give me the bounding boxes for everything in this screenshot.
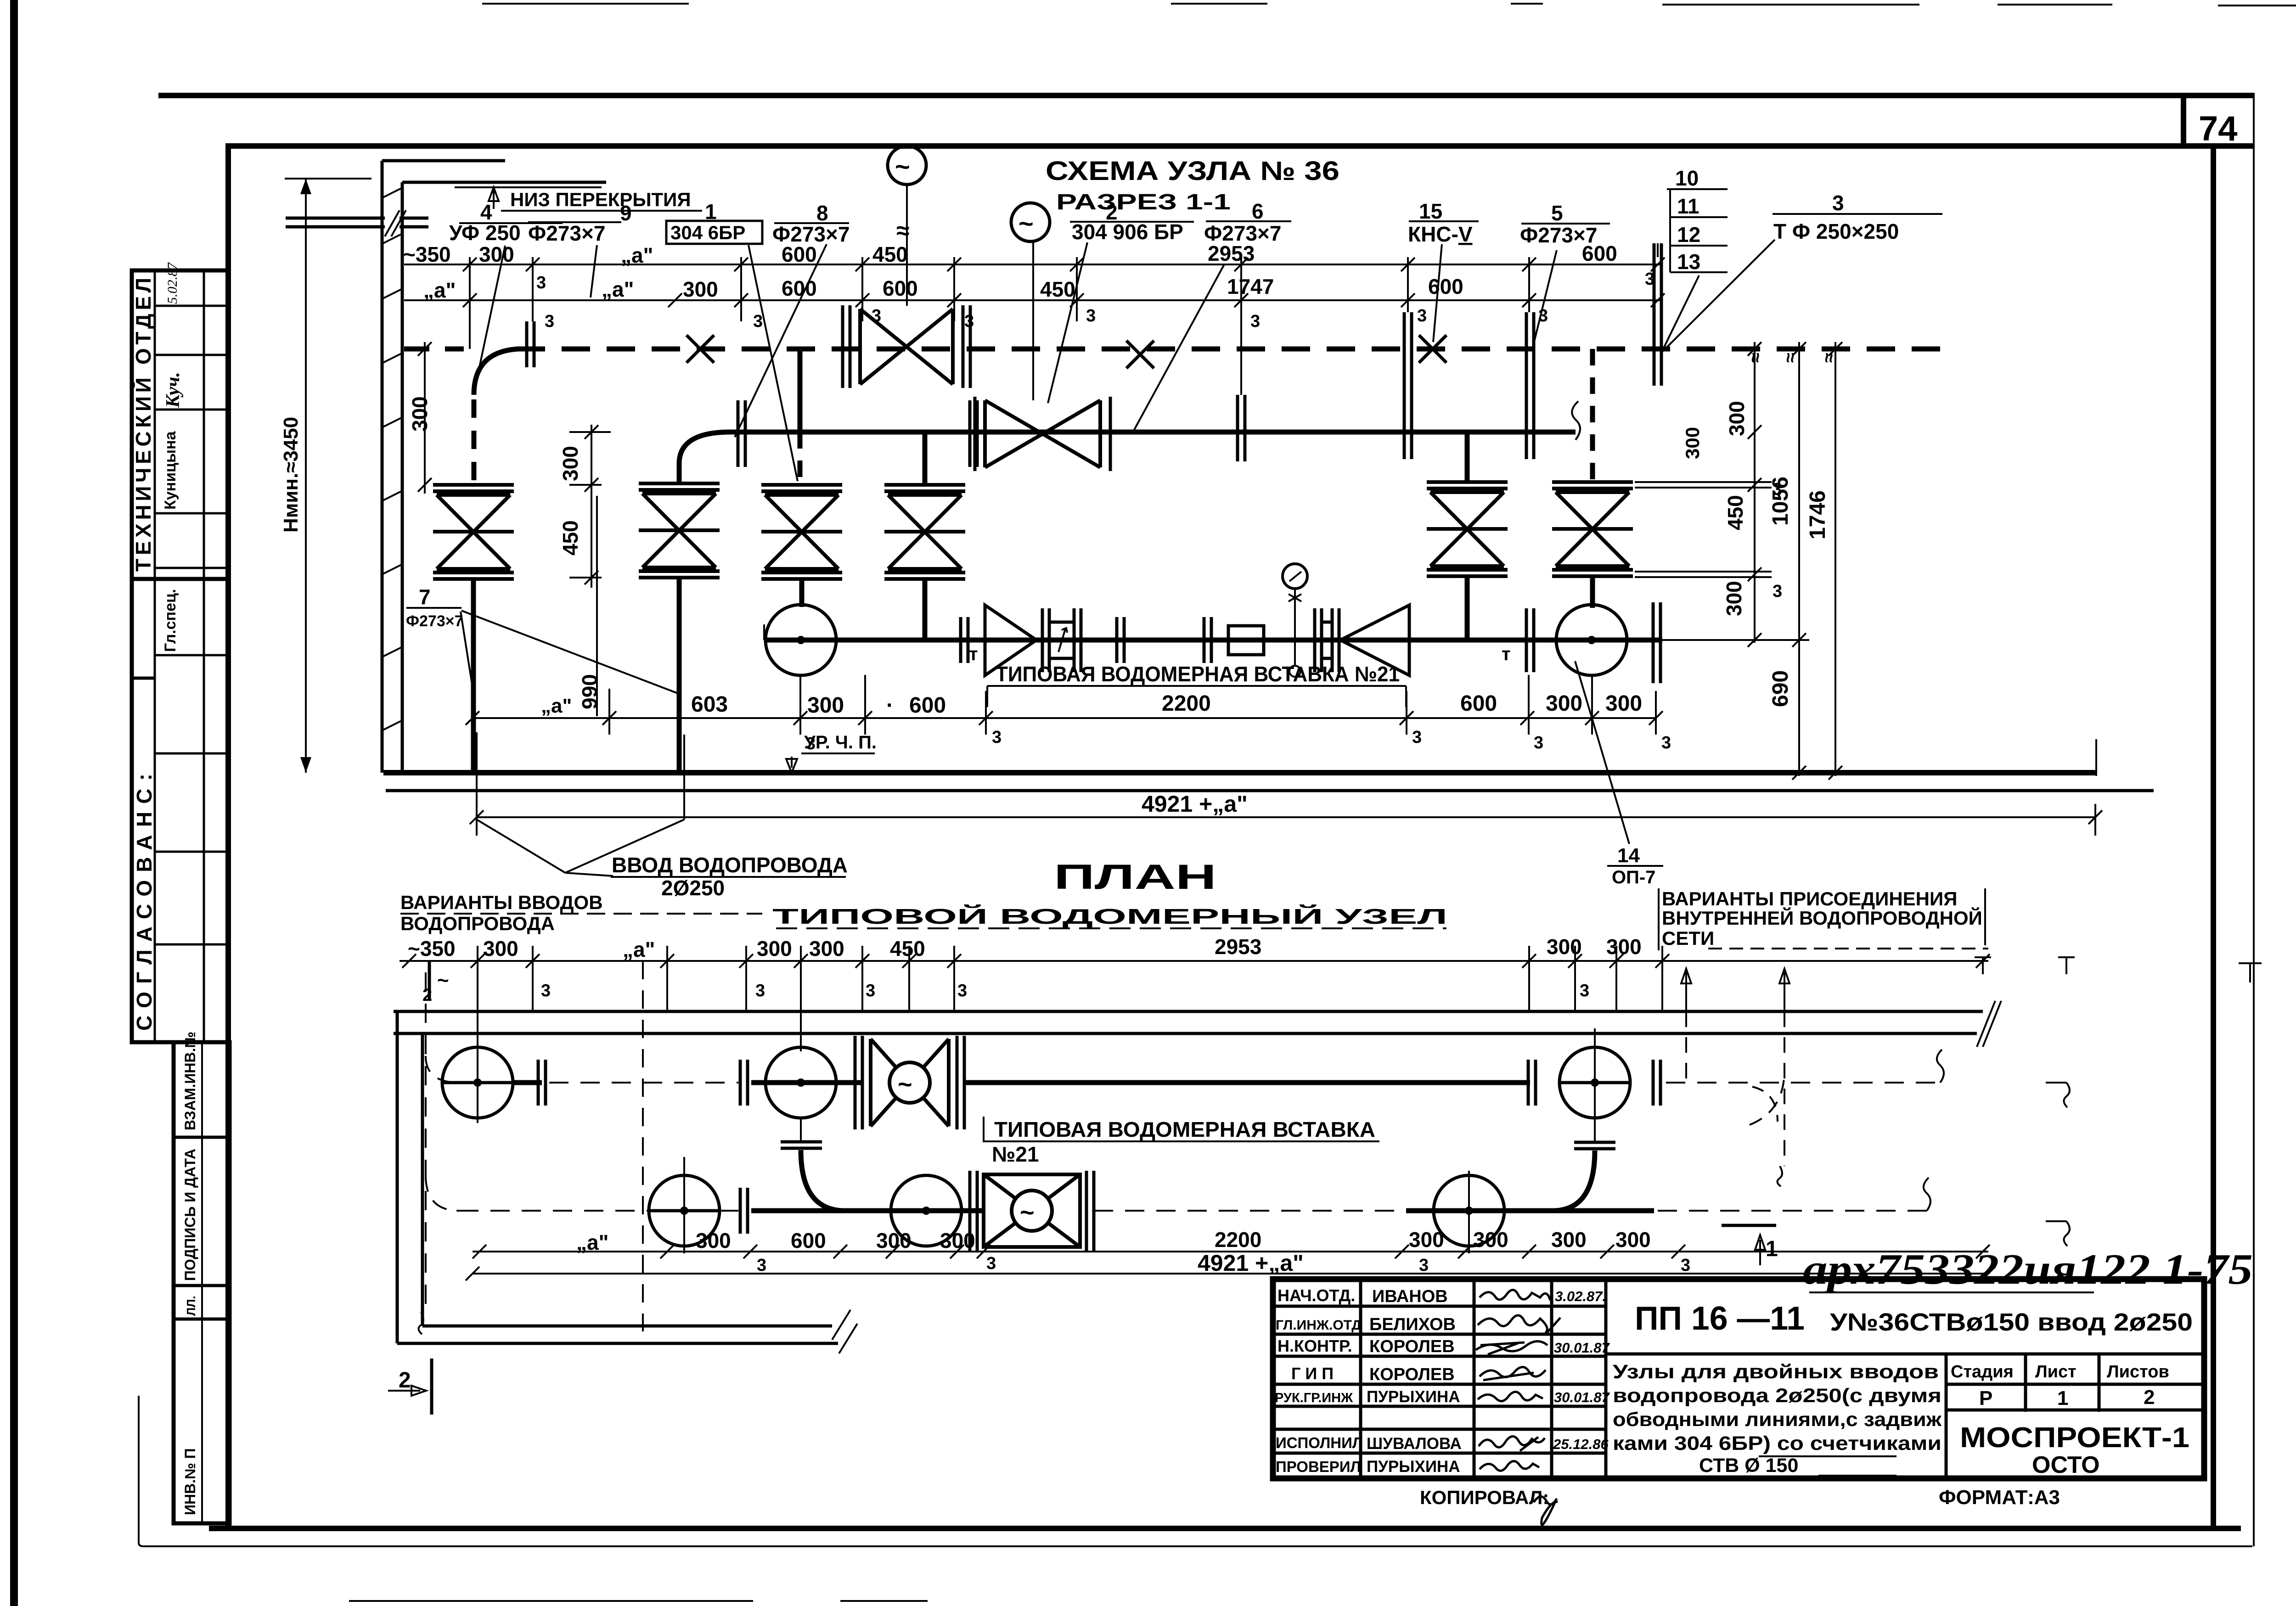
dim texts row A	[403, 241, 1617, 267]
svg-text:Листов: Листов	[2107, 1362, 2169, 1381]
entry riser dashed	[425, 972, 427, 1312]
svg-text:~350: ~350	[403, 242, 451, 266]
valve VH4 box type	[970, 1171, 1094, 1251]
TOP_DIMS	[403, 241, 1665, 395]
svg-text:3: 3	[1580, 981, 1589, 1000]
wall left (hatched)	[382, 161, 402, 773]
svg-text:3: 3	[986, 1254, 996, 1273]
svg-text:300: 300	[558, 446, 582, 481]
pipe segment through C2	[751, 1080, 862, 1085]
vvod vodoprovoda funnel	[477, 732, 684, 820]
svg-text:≈: ≈	[1745, 353, 1766, 363]
svg-text:300: 300	[696, 1229, 731, 1252]
svg-text:300: 300	[807, 693, 844, 718]
svg-text:3: 3	[753, 312, 763, 331]
V3 to meter M1	[799, 578, 805, 607]
svg-text:304 906 БР: 304 906 БР	[1072, 220, 1183, 244]
svg-text:5: 5	[1551, 201, 1563, 225]
plan dim line 4921	[473, 1273, 1988, 1275]
svg-text:~: ~	[1020, 1199, 1035, 1226]
V2 bottom drop	[677, 578, 682, 773]
lower attribute column	[174, 1042, 230, 1523]
flange on P2 x2703	[1238, 395, 1245, 461]
svg-text:3: 3	[541, 981, 551, 1000]
svg-text:3: 3	[1534, 733, 1543, 752]
svg-text:3: 3	[1773, 582, 1782, 601]
svg-text:2953: 2953	[1208, 241, 1255, 265]
svg-text:~: ~	[437, 969, 449, 992]
reducer right	[985, 605, 1036, 675]
svg-text:450: 450	[558, 520, 582, 556]
tall flange x3610	[1654, 243, 1661, 386]
pipe P3 meter line	[764, 638, 1662, 643]
branch riser x1742 solid above P2	[798, 349, 803, 432]
svg-text:3: 3	[872, 306, 881, 326]
svg-text:300: 300	[1547, 935, 1582, 959]
svg-text:СЕТИ: СЕТИ	[1662, 927, 1714, 949]
svg-text:Гл.спец.: Гл.спец.	[162, 589, 179, 652]
svg-text:3: 3	[964, 312, 974, 331]
svg-text:СТВ Ø 150: СТВ Ø 150	[1699, 1454, 1798, 1477]
svg-text:1746: 1746	[1806, 490, 1830, 539]
branch riser x1742 dashed to V3	[798, 432, 803, 485]
svg-text:СХЕМА УЗЛА № 36: СХЕМА УЗЛА № 36	[1046, 156, 1339, 186]
V1 bottom drop	[471, 579, 476, 773]
svg-text:№21: №21	[992, 1142, 1039, 1166]
svg-text:ками 304 6БР) со счетчиками: ками 304 6БР) со счетчиками	[1613, 1432, 1941, 1454]
mosproekt box	[1945, 1412, 1948, 1478]
svg-text:2200: 2200	[1162, 691, 1211, 716]
dim line D1	[404, 264, 1662, 265]
svg-text:УФ 250: УФ 250	[449, 221, 521, 245]
svg-text:ПП 16 —11: ПП 16 —11	[1635, 1300, 1805, 1337]
svg-text:11: 11	[1677, 194, 1699, 218]
svg-text:3: 3	[1419, 1256, 1429, 1275]
dim texts row B	[423, 275, 1463, 302]
title block outer border	[1273, 1279, 2204, 1478]
svg-text:3: 3	[1417, 306, 1427, 326]
horizontal valve VH1 on bypass	[843, 305, 970, 388]
section divider	[132, 577, 228, 581]
svg-text:Г И П: Г И П	[1291, 1364, 1334, 1383]
left frame border	[225, 143, 231, 1528]
flange	[740, 1060, 748, 1106]
stadia list listov headers	[1951, 1362, 2169, 1409]
horizontal valve VH2 on main	[975, 397, 1110, 471]
left table labels	[1275, 1286, 1363, 1475]
svg-text:НИЗ ПЕРЕКРЫТИЯ: НИЗ ПЕРЕКРЫТИЯ	[510, 189, 691, 210]
svg-text:12: 12	[1677, 223, 1700, 247]
svg-text:У№36СТВø150 ввод 2ø250: У№36СТВø150 ввод 2ø250	[1830, 1308, 2193, 1336]
meter circle C3	[1559, 1047, 1630, 1118]
V4 bottom drop	[923, 578, 928, 640]
svg-text:2: 2	[2144, 1386, 2155, 1409]
svg-text:3: 3	[1681, 1256, 1690, 1275]
svg-text:ИСПОЛНИЛ: ИСПОЛНИЛ	[1276, 1434, 1363, 1451]
svg-text:600: 600	[1428, 275, 1463, 298]
meter circle C4	[649, 1175, 720, 1246]
svg-text:ЛЛ.: ЛЛ.	[184, 1296, 198, 1316]
svg-text:300: 300	[683, 277, 718, 301]
dashed middle	[1094, 1210, 1406, 1212]
wall break right	[1977, 1001, 2001, 1047]
svg-text:Куч.: Куч.	[163, 372, 184, 408]
wall tee marks	[1975, 957, 1991, 974]
svg-text:Лист: Лист	[2035, 1362, 2077, 1381]
pipe P1 bypass dashed	[404, 347, 464, 352]
svg-text:ФОРМАТ:А3: ФОРМАТ:А3	[1939, 1486, 2060, 1509]
svg-text:Куницына: Куницына	[162, 431, 179, 510]
plan walls top	[394, 1011, 1983, 1033]
svg-text:300: 300	[1473, 1228, 1508, 1252]
svg-text:5.02.87: 5.02.87	[165, 262, 180, 304]
svg-text:300: 300	[1551, 1228, 1587, 1252]
floor line	[383, 770, 2096, 775]
svg-text:4921 +„а": 4921 +„а"	[1198, 1250, 1304, 1276]
svg-text:ПЛАН: ПЛАН	[1054, 858, 1216, 897]
niz perekrytiya label	[489, 187, 499, 209]
svg-text:обводными линиями,с задвиж: обводными линиями,с задвиж	[1613, 1409, 1942, 1431]
meter M2	[1556, 605, 1627, 675]
svg-text:ВАРИАНТЫ ПРИСОЕДИНЕНИЯ: ВАРИАНТЫ ПРИСОЕДИНЕНИЯ	[1662, 888, 1957, 910]
svg-text:Ф273×7: Ф273×7	[1520, 223, 1597, 247]
segment	[720, 1210, 738, 1212]
BOTTOM_DIMS_SECTION	[383, 662, 2154, 791]
svg-text:15: 15	[1419, 199, 1442, 223]
svg-text:ОСТО: ОСТО	[2032, 1452, 2100, 1478]
svg-text:7: 7	[419, 585, 431, 609]
svg-text:НАЧ.ОТД.: НАЧ.ОТД.	[1277, 1286, 1355, 1305]
svg-text:600: 600	[782, 276, 817, 300]
svg-text:600: 600	[1460, 691, 1497, 716]
slab top tick line	[285, 178, 371, 180]
svg-text:3: 3	[757, 1256, 766, 1275]
svg-text:Т Ф 250×250: Т Ф 250×250	[1773, 219, 1899, 243]
svg-text:Узлы для двойных вводов: Узлы для двойных вводов	[1613, 1361, 1939, 1383]
MIDDLE	[400, 661, 2102, 950]
svg-text:1: 1	[2057, 1387, 2068, 1409]
V5 bottom drop	[1465, 574, 1470, 640]
right horizontal extensions	[1635, 482, 1772, 577]
svg-text:БЕЛИХОВ: БЕЛИХОВ	[1369, 1315, 1456, 1334]
riser dashed to V1	[472, 399, 477, 485]
flange on P1 x1155	[527, 321, 534, 367]
row lines left table	[1273, 1306, 1606, 1453]
PLAN	[400, 935, 1990, 1331]
meter circle C5	[891, 1175, 962, 1246]
svg-text:ИВАНОВ: ИВАНОВ	[1372, 1287, 1448, 1306]
meter M1	[765, 605, 836, 675]
filter rectangle	[1228, 626, 1264, 655]
V6 to meter M2	[1590, 574, 1595, 608]
description text	[1613, 1361, 1942, 1477]
dashed continuation	[1666, 1082, 1940, 1084]
svg-text:КНС-V: КНС-V	[1408, 222, 1473, 246]
small 3 labels top	[536, 270, 1654, 331]
svg-text:ВВОД ВОДОПРОВОДА: ВВОД ВОДОПРОВОДА	[612, 853, 848, 877]
svg-text:3: 3	[1412, 728, 1422, 747]
svg-text:9: 9	[620, 201, 632, 225]
svg-text:„а": „а"	[602, 277, 634, 301]
svg-text:ВАРИАНТЫ ВВОДОВ: ВАРИАНТЫ ВВОДОВ	[400, 892, 603, 913]
X mark 3	[1419, 335, 1446, 363]
svg-text:1747: 1747	[1227, 275, 1274, 298]
svg-text:4921 +„а": 4921 +„а"	[1142, 791, 1248, 817]
V6 riser dashed from P1	[1590, 349, 1595, 482]
svg-text:300: 300	[757, 937, 792, 960]
svg-text:≈: ≈	[1819, 353, 1839, 363]
bottom dim line	[473, 717, 1656, 719]
svg-text:13: 13	[1677, 250, 1700, 274]
svg-text:КОПИРОВАЛ:: КОПИРОВАЛ:	[1420, 1487, 1549, 1508]
flange P3 right end x3610	[1653, 602, 1660, 683]
svg-text:690: 690	[1768, 670, 1793, 707]
svg-text:т: т	[1502, 644, 1511, 664]
svg-text:ВНУТРЕННЕЙ ВОДОПРОВОДНОЙ: ВНУТРЕННЕЙ ВОДОПРОВОДНОЙ	[1662, 907, 1982, 929]
flange on P2 x2120	[970, 400, 977, 467]
svg-text:2953: 2953	[1215, 935, 1261, 959]
svg-text:2200: 2200	[1215, 1228, 1261, 1252]
branch arrows up variants	[1681, 969, 1691, 1011]
svg-text:8: 8	[816, 201, 828, 225]
svg-text:~: ~	[898, 1071, 912, 1098]
ceiling slab corner lines	[382, 161, 606, 182]
V4 riser top	[923, 432, 928, 485]
valve V4	[884, 485, 965, 579]
CALLOUTS	[449, 166, 1942, 481]
svg-text:ПУРЫХИНА: ПУРЫХИНА	[1367, 1458, 1460, 1476]
svg-text:УР. Ч. П.: УР. Ч. П.	[804, 732, 877, 752]
dates column	[1553, 1288, 1610, 1452]
svg-text:„а": „а"	[576, 1230, 608, 1254]
meter circle C2	[765, 1047, 836, 1118]
LEFT_COLUMN	[132, 270, 230, 1523]
svg-text:450: 450	[872, 242, 908, 266]
right inner frame border	[2211, 146, 2216, 1528]
svg-text:74: 74	[2199, 109, 2238, 148]
flange on P3 x2100	[961, 617, 968, 663]
svg-text:300: 300	[809, 937, 844, 960]
svg-text:300: 300	[940, 1229, 975, 1252]
flange on P2 x1615	[738, 400, 745, 467]
svg-text:МОСПРОЕКТ-1: МОСПРОЕКТ-1	[1960, 1422, 2189, 1454]
svg-text:300: 300	[1615, 1228, 1651, 1252]
svg-text:КОРОЛЕВ: КОРОЛЕВ	[1369, 1365, 1455, 1384]
svg-text:≈: ≈	[896, 218, 910, 244]
svg-text:3: 3	[755, 981, 765, 1000]
svg-text:600: 600	[883, 276, 918, 300]
svg-text:3: 3	[866, 981, 875, 1000]
valve V6	[1552, 482, 1633, 576]
svg-text:ПОДПИСЬ И ДАТА: ПОДПИСЬ И ДАТА	[182, 1149, 198, 1281]
svg-text:3: 3	[1645, 270, 1654, 289]
svg-text:Ф273×7: Ф273×7	[528, 221, 605, 245]
flange on P3 x2630	[1204, 617, 1211, 663]
dim ticks D1/D2	[463, 258, 1665, 271]
section mark 2 bottom left	[430, 1359, 433, 1415]
TITLES	[1046, 156, 1339, 214]
left scan edge bar	[10, 0, 18, 1606]
lower long line	[386, 789, 2154, 792]
svg-text:~: ~	[895, 152, 910, 181]
tall flange x3066	[1404, 312, 1412, 459]
svg-text:„а": „а"	[621, 243, 653, 267]
counter STV left	[1042, 608, 1081, 672]
svg-text:3: 3	[545, 312, 554, 331]
svg-text:600: 600	[791, 1229, 826, 1252]
left table names	[1367, 1287, 1462, 1476]
svg-text:2: 2	[399, 1368, 411, 1393]
svg-text:~: ~	[1019, 209, 1034, 238]
dim extension verticals into plan	[478, 946, 1662, 1051]
svg-text:3: 3	[536, 273, 546, 292]
svg-text:Ф273×7: Ф273×7	[772, 222, 850, 246]
dim line D2	[404, 299, 1662, 301]
tall flange x3332	[1526, 312, 1534, 459]
stem B	[1032, 241, 1034, 400]
dashed hook curves	[1750, 1070, 1784, 1125]
svg-text:ТИПОВАЯ ВОДОМЕРНАЯ ВСТАВКА №21: ТИПОВАЯ ВОДОМЕРНАЯ ВСТАВКА №21	[996, 662, 1400, 686]
svg-text:3: 3	[1250, 312, 1260, 331]
svg-text:Н.КОНТР.: Н.КОНТР.	[1277, 1336, 1352, 1355]
svg-text:ТИПОВОЙ ВОДОМЕРНЫЙ УЗЕЛ: ТИПОВОЙ ВОДОМЕРНЫЙ УЗЕЛ	[772, 904, 1447, 928]
header divider right part	[1606, 1353, 2204, 1356]
dashed continuation	[1658, 1210, 1927, 1212]
flange	[1653, 1060, 1660, 1106]
small drain below	[1289, 640, 1300, 677]
svg-text:300: 300	[1722, 581, 1746, 616]
elbow from C2	[800, 1118, 802, 1140]
top frame line 2	[228, 143, 2253, 149]
svg-text:300: 300	[479, 242, 514, 266]
svg-text:КОРОЛЕВ: КОРОЛЕВ	[1369, 1337, 1455, 1356]
pipe thick	[751, 1208, 984, 1213]
valve VH3 with signal	[855, 1036, 964, 1129]
svg-text:водопровода 2ø250(с двумя: водопровода 2ø250(с двумя	[1613, 1385, 1941, 1407]
left vert dim 300	[418, 342, 432, 494]
bottom frame border	[209, 1526, 2241, 1531]
a boundary dashed vertical	[642, 961, 644, 1331]
TITLE_BLOCK	[1273, 1246, 2253, 1525]
counter STV right	[1315, 608, 1339, 672]
svg-text:304 6БР: 304 6БР	[670, 222, 745, 243]
reducer left	[1340, 605, 1409, 675]
valve V1	[433, 485, 514, 579]
svg-text:РУК.ГР.ИНЖ: РУК.ГР.ИНЖ	[1275, 1391, 1353, 1405]
svg-text:Нмин.≈3450: Нмин.≈3450	[280, 417, 302, 533]
svg-text:т: т	[969, 644, 978, 664]
signal circle A	[888, 146, 926, 185]
svg-text:450: 450	[1723, 495, 1747, 530]
right vert dim lines	[1755, 342, 1835, 776]
svg-text:РАЗРЕЗ 1-1: РАЗРЕЗ 1-1	[1056, 190, 1231, 214]
svg-text:Р: Р	[1979, 1387, 1992, 1409]
svg-text:990: 990	[578, 674, 602, 709]
Hmin dimension vertical	[305, 179, 307, 773]
svg-text:ТЕХНИЧЕСКИЙ ОТДЕЛ: ТЕХНИЧЕСКИЙ ОТДЕЛ	[131, 278, 155, 572]
plan wall left	[397, 1011, 422, 1343]
svg-text:ТИПОВАЯ ВОДОМЕРНАЯ ВСТАВКА: ТИПОВАЯ ВОДОМЕРНАЯ ВСТАВКА	[994, 1117, 1375, 1141]
svg-text:3: 3	[1773, 480, 1782, 499]
dim line 4921+a (section)	[477, 816, 2095, 818]
svg-text:„а": „а"	[541, 695, 572, 717]
meter circle C1	[442, 1047, 513, 1118]
svg-text:ИНВ.№ П: ИНВ.№ П	[182, 1448, 198, 1515]
svg-text:3: 3	[957, 981, 967, 1000]
section mark 1 bottom	[1722, 1224, 1776, 1227]
signatures squiggles	[1476, 1290, 1560, 1471]
P2 break mark	[1572, 401, 1580, 440]
svg-text:300: 300	[876, 1229, 912, 1252]
stadia list listov columns	[1946, 1354, 2099, 1412]
pipe P2 solid	[730, 430, 1576, 435]
svg-text:603: 603	[691, 692, 728, 717]
bottom edge artifacts	[349, 1600, 928, 1602]
svg-text:450: 450	[1040, 277, 1075, 301]
svg-text:1: 1	[1766, 1237, 1778, 1261]
svg-text:„а": „а"	[623, 938, 655, 961]
right outer frame border	[2253, 95, 2255, 1546]
svg-text:ШУВАЛОВА: ШУВАЛОВА	[1367, 1435, 1462, 1453]
svg-text:300: 300	[1546, 691, 1582, 716]
svg-text:ГЛ.ИНЖ.ОТД: ГЛ.ИНЖ.ОТД	[1276, 1318, 1362, 1333]
pipe segment long	[964, 1080, 1530, 1085]
elbow from C3	[1594, 1119, 1596, 1141]
pipe plan P1a	[426, 1056, 459, 1083]
svg-text:ПУРЫХИНА: ПУРЫХИНА	[1367, 1388, 1460, 1406]
svg-text:3: 3	[992, 728, 1002, 747]
svg-text:Стадия: Стадия	[1951, 1362, 2014, 1381]
svg-text:300: 300	[1682, 427, 1703, 459]
elbow P1 to V1 riser	[474, 349, 519, 395]
floor slab double line with break	[286, 218, 428, 227]
pipe plan P2a entry	[426, 1175, 459, 1211]
svg-text:ВОДОПРОВОДА: ВОДОПРОВОДА	[400, 913, 555, 934]
flange	[740, 1188, 748, 1234]
flange	[538, 1060, 546, 1106]
upper attribute table	[132, 270, 228, 1042]
sheet number box 74	[2181, 98, 2186, 146]
svg-text:≈: ≈	[1780, 353, 1801, 363]
svg-text:3.02.87.: 3.02.87.	[1555, 1288, 1606, 1304]
svg-text:3: 3	[1661, 733, 1671, 752]
top frame line 1	[158, 93, 2255, 98]
svg-text:300: 300	[483, 937, 518, 960]
svg-text:ОП-7: ОП-7	[1612, 867, 1655, 887]
svg-text:14: 14	[1617, 844, 1640, 867]
svg-text:арх753322ия122 1-75: арх753322ия122 1-75	[1803, 1246, 2253, 1293]
svg-text:Ф273×7: Ф273×7	[406, 612, 463, 630]
valve V5	[1427, 482, 1508, 576]
plan bottom dim line	[473, 1251, 1988, 1252]
signal circle B	[1011, 203, 1050, 241]
wall break bottom	[832, 1310, 857, 1353]
dashed variable segment	[549, 1082, 738, 1084]
svg-text:300: 300	[1606, 935, 1642, 959]
svg-text:30.01.87: 30.01.87	[1554, 1340, 1610, 1356]
svg-text:~350: ~350	[408, 937, 456, 960]
SIDE_DIMS	[406, 342, 1842, 780]
svg-text:25.12.86: 25.12.86	[1553, 1436, 1609, 1452]
X mark 2	[1126, 341, 1154, 368]
svg-text:6: 6	[1252, 199, 1264, 223]
gauge manometer	[1294, 589, 1296, 640]
column lines left table	[1361, 1279, 1606, 1478]
valve V3	[761, 485, 842, 579]
svg-text:600: 600	[909, 693, 946, 718]
plan top dim line	[400, 960, 1988, 962]
stem A	[906, 185, 908, 306]
